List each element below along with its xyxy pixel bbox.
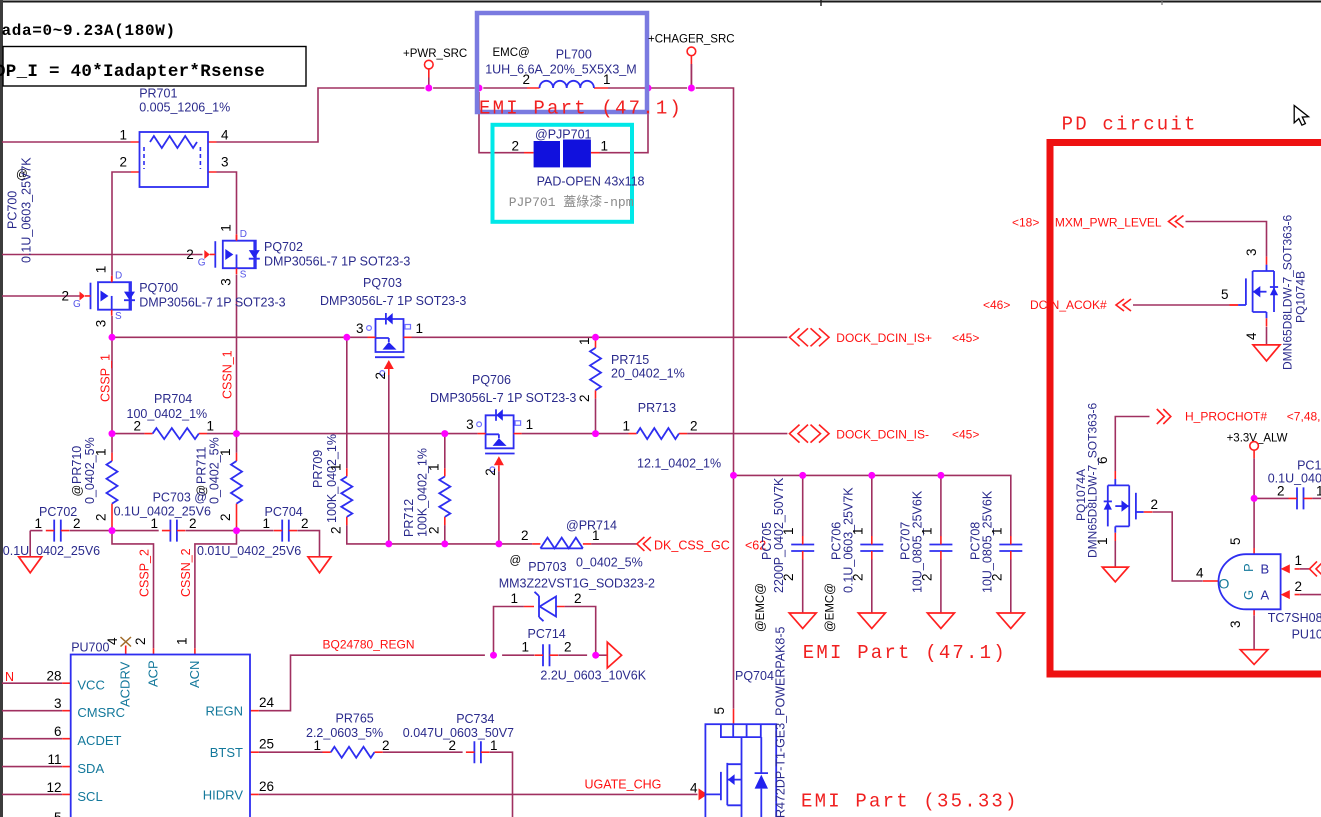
- svg-text:PC734: PC734: [456, 712, 494, 726]
- svg-text:12.1_0402_1%: 12.1_0402_1%: [637, 457, 721, 471]
- svg-text:CSSP_2: CSSP_2: [138, 549, 152, 597]
- svg-text:28: 28: [46, 669, 61, 684]
- svg-text:PC704: PC704: [265, 505, 303, 519]
- svg-text:1: 1: [781, 527, 796, 535]
- svg-text:1: 1: [94, 448, 109, 456]
- svg-text:1: 1: [577, 337, 592, 345]
- svg-text:CSSN_2: CSSN_2: [179, 548, 193, 597]
- svg-text:2: 2: [189, 516, 197, 531]
- svg-text:PR701: PR701: [139, 87, 177, 101]
- svg-text:DMP3056L-7 1P SOT23-3: DMP3056L-7 1P SOT23-3: [320, 294, 466, 308]
- svg-text:UGATE_CHG: UGATE_CHG: [585, 778, 662, 792]
- svg-text:1: 1: [175, 637, 190, 645]
- svg-text:2: 2: [483, 468, 498, 476]
- svg-text:DMP3056L-7 1P SOT23-3: DMP3056L-7 1P SOT23-3: [264, 255, 410, 269]
- svg-text:4: 4: [221, 128, 229, 143]
- svg-text:<46>: <46>: [983, 298, 1010, 312]
- svg-text:2: 2: [119, 155, 127, 170]
- svg-text:PR710: PR710: [70, 446, 84, 484]
- svg-text:2: 2: [1277, 484, 1285, 499]
- svg-text:2: 2: [133, 637, 148, 645]
- svg-text:CMSRC: CMSRC: [77, 705, 125, 720]
- svg-text:ACN: ACN: [187, 661, 202, 688]
- svg-text:DMN65D8LDW-7_SOT363-6: DMN65D8LDW-7_SOT363-6: [1281, 215, 1295, 370]
- svg-text:4: 4: [105, 637, 120, 645]
- svg-text:0_0402_5%: 0_0402_5%: [576, 556, 643, 570]
- svg-text:0.1U_0402_25V6: 0.1U_0402_25V6: [1268, 472, 1321, 486]
- svg-text:2: 2: [186, 247, 194, 262]
- svg-text:1: 1: [526, 417, 534, 432]
- svg-text:1: 1: [94, 266, 109, 274]
- svg-text:26: 26: [259, 779, 274, 794]
- svg-text:0.01U_0402_25V6: 0.01U_0402_25V6: [197, 544, 301, 558]
- svg-text:0_0402_5%: 0_0402_5%: [83, 437, 97, 504]
- svg-text:PQ706: PQ706: [472, 373, 511, 387]
- svg-text:2: 2: [511, 139, 519, 154]
- svg-text:1: 1: [521, 640, 529, 655]
- svg-text:CSSN_1: CSSN_1: [221, 350, 235, 399]
- svg-text:2: 2: [94, 513, 109, 521]
- svg-text:0.005_1206_1%: 0.005_1206_1%: [139, 101, 230, 115]
- svg-text:H_PROCHOT#: H_PROCHOT#: [1185, 410, 1267, 424]
- svg-text:PQ702: PQ702: [264, 240, 303, 254]
- svg-text:2: 2: [781, 573, 796, 581]
- svg-text:1: 1: [119, 128, 127, 143]
- svg-text:2: 2: [522, 72, 530, 87]
- svg-text:1: 1: [1295, 553, 1303, 568]
- svg-text:PD703: PD703: [528, 560, 566, 574]
- svg-text:2: 2: [448, 738, 456, 753]
- svg-text:G: G: [198, 257, 206, 268]
- svg-text:PU105: PU105: [1292, 628, 1321, 642]
- svg-text:R472DP-T1-GE3_POWERPAK8-5: R472DP-T1-GE3_POWERPAK8-5: [774, 626, 788, 817]
- svg-text:EMI Part (35.33): EMI Part (35.33): [801, 791, 1019, 813]
- svg-text:G: G: [73, 299, 81, 310]
- svg-text:PU700: PU700: [71, 641, 109, 655]
- svg-text:3: 3: [221, 155, 229, 170]
- svg-text:PR715: PR715: [611, 353, 649, 367]
- svg-text:MXM_PWR_LEVEL: MXM_PWR_LEVEL: [1055, 216, 1162, 230]
- svg-text:DP_I = 40*Iadapter*Rsense: DP_I = 40*Iadapter*Rsense: [0, 62, 265, 82]
- svg-text:2: 2: [61, 288, 69, 303]
- svg-text:PC703 @: PC703 @: [153, 491, 207, 505]
- svg-text:2: 2: [373, 372, 388, 380]
- svg-text:2: 2: [382, 738, 390, 753]
- svg-text:4: 4: [1244, 332, 1259, 340]
- svg-text:2: 2: [218, 513, 233, 521]
- svg-text:2: 2: [1151, 497, 1159, 512]
- svg-text:2: 2: [427, 526, 442, 534]
- svg-text:PQ703: PQ703: [363, 276, 402, 290]
- svg-text:D: D: [115, 271, 122, 282]
- svg-text:+PWR_SRC: +PWR_SRC: [403, 48, 467, 60]
- svg-text:ACDET: ACDET: [77, 733, 121, 748]
- svg-text:1: 1: [262, 516, 270, 531]
- svg-text:PR704: PR704: [154, 392, 192, 406]
- svg-text:20_0402_1%: 20_0402_1%: [611, 367, 685, 381]
- svg-text:2: 2: [521, 528, 529, 543]
- svg-text:1: 1: [592, 528, 600, 543]
- svg-text:+CHAGER_SRC: +CHAGER_SRC: [648, 34, 735, 46]
- svg-text:5: 5: [1228, 537, 1243, 545]
- svg-text:1: 1: [1316, 484, 1321, 499]
- svg-text:1: 1: [603, 72, 611, 87]
- svg-text:100K_0402_1%: 100K_0402_1%: [416, 448, 430, 537]
- svg-text:B: B: [1261, 562, 1270, 577]
- svg-text:3: 3: [1244, 248, 1259, 256]
- svg-text:1: 1: [919, 527, 934, 535]
- svg-text:1: 1: [219, 224, 234, 232]
- svg-text:DMP3056L-7 1P SOT23-3: DMP3056L-7 1P SOT23-3: [430, 391, 576, 405]
- svg-text:2: 2: [73, 516, 81, 531]
- svg-text:1: 1: [207, 419, 215, 434]
- svg-text:PC700: PC700: [6, 191, 20, 229]
- svg-text:11: 11: [47, 752, 61, 767]
- svg-text:3: 3: [94, 320, 109, 328]
- svg-text:SCL: SCL: [77, 789, 102, 804]
- svg-text:@EMC@: @EMC@: [824, 583, 836, 632]
- svg-text:4: 4: [1196, 566, 1204, 581]
- svg-text:2: 2: [1295, 579, 1303, 594]
- svg-text:2: 2: [989, 573, 1004, 581]
- svg-text:PQ704: PQ704: [735, 669, 774, 683]
- svg-text:<45>: <45>: [952, 331, 979, 345]
- svg-text:DOCK_DCIN_IS-: DOCK_DCIN_IS-: [836, 427, 929, 441]
- svg-text:2: 2: [301, 516, 309, 531]
- svg-text:1: 1: [218, 448, 233, 456]
- svg-text:ACP: ACP: [146, 660, 161, 687]
- svg-text:0_0402_5%: 0_0402_5%: [208, 437, 222, 504]
- svg-text:BTST: BTST: [210, 745, 243, 760]
- svg-text:PC702: PC702: [39, 505, 77, 519]
- svg-text:DMP3056L-7 1P SOT23-3: DMP3056L-7 1P SOT23-3: [139, 296, 285, 310]
- svg-text:PR712: PR712: [402, 499, 416, 537]
- svg-text:EMC@: EMC@: [493, 47, 530, 59]
- svg-text:@PJP701: @PJP701: [535, 128, 592, 142]
- svg-text:2: 2: [574, 591, 582, 606]
- svg-text:1: 1: [34, 516, 42, 531]
- svg-text:5: 5: [54, 810, 62, 817]
- svg-text:1: 1: [150, 516, 158, 531]
- svg-text:ada=0~9.23A(180W): ada=0~9.23A(180W): [2, 22, 176, 40]
- svg-text:DOCK_DCIN_IS+: DOCK_DCIN_IS+: [836, 331, 932, 345]
- svg-text:VCC: VCC: [77, 678, 104, 693]
- svg-text:TC7SH08F: TC7SH08F: [1268, 611, 1321, 625]
- svg-text:3: 3: [54, 696, 62, 711]
- svg-text:1: 1: [622, 419, 630, 434]
- svg-text:<18>: <18>: [1012, 216, 1039, 230]
- svg-text:PR765: PR765: [336, 712, 374, 726]
- svg-text:2: 2: [850, 573, 865, 581]
- svg-text:@EMC@: @EMC@: [755, 583, 767, 632]
- svg-text:O: O: [1219, 576, 1230, 592]
- svg-text:EMI Part (47.1): EMI Part (47.1): [803, 642, 1007, 664]
- svg-text:24: 24: [259, 695, 275, 710]
- svg-text:D: D: [240, 229, 247, 240]
- svg-text:3: 3: [219, 278, 234, 286]
- svg-text:PC155: PC155: [1297, 459, 1321, 473]
- svg-text:2: 2: [133, 419, 141, 434]
- svg-text:HIDRV: HIDRV: [203, 787, 244, 802]
- svg-text:PR709: PR709: [311, 450, 325, 488]
- svg-text:S: S: [240, 270, 247, 281]
- svg-text:G: G: [1241, 590, 1256, 600]
- svg-text:2: 2: [577, 394, 592, 402]
- svg-text:CSSP_1: CSSP_1: [99, 354, 113, 402]
- svg-text:100K_0402_1%: 100K_0402_1%: [325, 434, 339, 523]
- svg-text:3: 3: [356, 321, 364, 336]
- svg-text:PR711: PR711: [195, 447, 209, 484]
- svg-text:6: 6: [54, 724, 62, 739]
- svg-text:@: @: [510, 555, 522, 567]
- svg-text:PQ700: PQ700: [139, 281, 178, 295]
- svg-text:1: 1: [490, 738, 498, 753]
- svg-text:2: 2: [919, 573, 934, 581]
- svg-text:1UH_6.6A_20%_5X5X3_M: 1UH_6.6A_20%_5X5X3_M: [485, 63, 637, 77]
- svg-text:0.1U_0402_25V6: 0.1U_0402_25V6: [3, 544, 100, 558]
- svg-text:3: 3: [1228, 620, 1243, 628]
- svg-text:PJP701 蓋綠漆-npm: PJP701 蓋綠漆-npm: [509, 194, 634, 210]
- svg-text:0.1U_0603_25V7K: 0.1U_0603_25V7K: [20, 157, 34, 263]
- svg-text:SDA: SDA: [77, 761, 104, 776]
- svg-text:4: 4: [690, 781, 698, 796]
- svg-text:REGN: REGN: [205, 704, 243, 719]
- svg-text:N: N: [5, 670, 14, 684]
- svg-text:5: 5: [1221, 287, 1229, 302]
- svg-text:PC714: PC714: [528, 627, 566, 641]
- svg-text:A: A: [1261, 588, 1270, 603]
- svg-text:1: 1: [427, 463, 442, 471]
- svg-text:DCIN_ACOK#: DCIN_ACOK#: [1030, 298, 1107, 312]
- svg-text:1: 1: [329, 463, 344, 471]
- svg-text:5: 5: [712, 707, 727, 715]
- svg-text:PQ1074B: PQ1074B: [1294, 271, 1308, 323]
- svg-text:ACDRV: ACDRV: [118, 661, 133, 707]
- svg-text:1: 1: [989, 527, 1004, 535]
- svg-text:P: P: [1241, 563, 1256, 572]
- svg-text:1: 1: [601, 139, 609, 154]
- svg-text:PD circuit: PD circuit: [1062, 114, 1198, 136]
- svg-text:<7,48,5: <7,48,5: [1287, 410, 1321, 424]
- svg-text:BQ24780_REGN: BQ24780_REGN: [323, 638, 415, 652]
- svg-text:PL700: PL700: [556, 48, 592, 62]
- svg-text:2: 2: [564, 640, 572, 655]
- svg-text:DK_CSS_GC: DK_CSS_GC: [654, 539, 730, 553]
- svg-text:12: 12: [46, 780, 61, 795]
- svg-text:3: 3: [466, 417, 474, 432]
- svg-text:EMI Part (47.1): EMI Part (47.1): [479, 98, 683, 120]
- svg-text:S: S: [115, 311, 122, 322]
- svg-text:2: 2: [690, 419, 698, 434]
- svg-text:MM3Z22VST1G_SOD323-2: MM3Z22VST1G_SOD323-2: [499, 577, 655, 591]
- svg-text:1: 1: [416, 321, 424, 336]
- svg-text:25: 25: [259, 737, 274, 752]
- svg-text:PAD-OPEN 43x118: PAD-OPEN 43x118: [537, 175, 645, 189]
- svg-text:1: 1: [510, 591, 518, 606]
- svg-text:PR713: PR713: [638, 401, 676, 415]
- svg-text:DMN65D8LDW-7_SOT363-6: DMN65D8LDW-7_SOT363-6: [1086, 403, 1100, 558]
- svg-text:2.2U_0603_10V6K: 2.2U_0603_10V6K: [540, 669, 646, 683]
- svg-text:1: 1: [313, 738, 321, 753]
- svg-text:<45>: <45>: [952, 427, 979, 441]
- svg-text:1: 1: [850, 527, 865, 535]
- svg-text:2: 2: [329, 526, 344, 534]
